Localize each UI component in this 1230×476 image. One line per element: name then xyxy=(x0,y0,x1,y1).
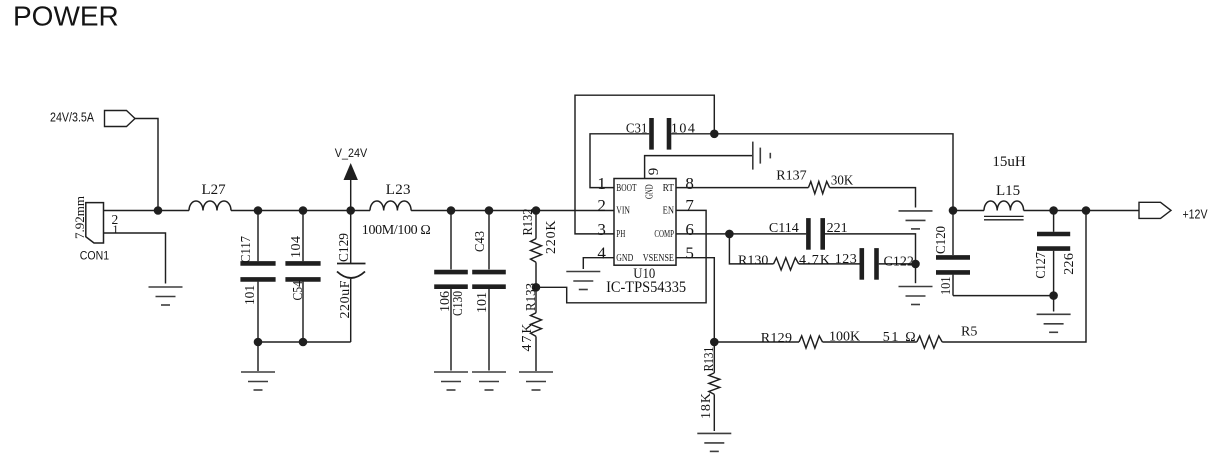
svg-text:R5: R5 xyxy=(961,325,977,340)
svg-text:18K: 18K xyxy=(699,393,714,419)
svg-text:C117: C117 xyxy=(239,236,254,263)
ground pin 9 sideways xyxy=(753,142,771,170)
label 100M/100 ohm xyxy=(362,223,431,238)
svg-text:3: 3 xyxy=(597,220,606,239)
svg-text:104: 104 xyxy=(289,236,304,258)
node COMP xyxy=(725,230,734,239)
svg-text:L27: L27 xyxy=(202,182,227,198)
svg-text:15uH: 15uH xyxy=(992,154,1026,170)
svg-text:4.7K: 4.7K xyxy=(799,253,830,268)
inductor L15 xyxy=(984,154,1026,220)
svg-text:VIN: VIN xyxy=(616,206,630,217)
wire COMP xyxy=(676,233,729,235)
svg-text:24V/3.5A: 24V/3.5A xyxy=(50,111,95,125)
wire BOOT xyxy=(590,134,649,188)
wire bottom rail C117-C129 xyxy=(258,341,351,343)
svg-text:9: 9 xyxy=(646,168,662,176)
ground C130 xyxy=(434,372,468,390)
svg-text:101: 101 xyxy=(939,277,954,296)
wire main rail left xyxy=(158,210,189,212)
capacitor C54 xyxy=(285,211,320,343)
capacitor C43 xyxy=(472,211,506,371)
svg-text:EN: EN xyxy=(663,206,675,217)
svg-text:6: 6 xyxy=(685,220,694,239)
ground R131 xyxy=(697,433,731,451)
wire ground stem xyxy=(257,342,259,371)
resistor R137 xyxy=(676,168,916,207)
node V_24V C129 xyxy=(346,206,355,215)
node C117 bottom xyxy=(254,338,263,347)
U10 pin numbers xyxy=(597,174,694,262)
ground R133 xyxy=(519,372,553,390)
svg-text:4: 4 xyxy=(597,244,606,263)
U10 pin 9 wire xyxy=(645,156,752,179)
svg-text:5: 5 xyxy=(685,244,694,263)
svg-text:226: 226 xyxy=(1062,253,1077,275)
ground R137 xyxy=(899,211,933,229)
inductor L27 xyxy=(189,182,231,211)
node C127 top xyxy=(1049,206,1058,215)
svg-text:220K: 220K xyxy=(544,221,559,255)
capacitor C120 xyxy=(934,211,970,296)
wire EN tap xyxy=(536,210,706,302)
ground pin 4 xyxy=(566,272,600,290)
wire node to L15 xyxy=(953,210,984,212)
U10 pin 4 wire xyxy=(583,258,614,269)
capacitor C130 xyxy=(434,211,468,371)
svg-text:VSENSE: VSENSE xyxy=(643,253,674,264)
node comp gnd xyxy=(911,260,920,269)
svg-text:C130: C130 xyxy=(451,291,466,316)
input port 24V/3.5A xyxy=(50,111,135,127)
svg-text:C129: C129 xyxy=(337,233,352,262)
svg-text:R129: R129 xyxy=(761,331,792,346)
ground C43 xyxy=(472,372,506,390)
wire input to rail xyxy=(135,119,158,211)
title POWER xyxy=(13,1,119,32)
node C54 xyxy=(299,206,308,215)
svg-text:C127: C127 xyxy=(1034,252,1049,279)
ground output xyxy=(1037,314,1071,332)
capacitor C129 electrolytic xyxy=(337,211,366,343)
svg-text:47K: 47K xyxy=(520,324,535,352)
wire rail L23 to VIN xyxy=(411,210,614,212)
svg-text:7: 7 xyxy=(685,196,694,215)
svg-text:R137: R137 xyxy=(776,168,806,183)
svg-text:220uF: 220uF xyxy=(338,280,353,318)
wire switch node to output xyxy=(714,134,953,211)
node R132 xyxy=(532,206,541,215)
node C43 xyxy=(485,206,494,215)
U10 pin names xyxy=(616,183,674,264)
svg-text:CON1: CON1 xyxy=(80,249,110,263)
op-amp U10 IC-TPS54335 body xyxy=(606,179,686,297)
svg-text:101: 101 xyxy=(243,285,258,305)
resistor R132 xyxy=(521,209,559,288)
U10 pin 9 GND label xyxy=(645,168,663,199)
svg-text:C122: C122 xyxy=(884,254,914,269)
wire C127 gnd stem xyxy=(1053,296,1055,312)
svg-text:221: 221 xyxy=(827,221,848,236)
svg-text:2: 2 xyxy=(597,196,606,215)
svg-text:1: 1 xyxy=(113,222,119,236)
capacitor C127 xyxy=(1034,211,1077,296)
ground comp network xyxy=(899,287,933,305)
resistor R131 xyxy=(699,342,720,431)
wire PH loop xyxy=(575,95,714,234)
svg-text:L23: L23 xyxy=(386,182,411,198)
svg-text:30K: 30K xyxy=(831,173,853,188)
resistor R129 xyxy=(714,330,860,349)
power flag V_24V xyxy=(335,148,368,211)
svg-text:R130: R130 xyxy=(738,254,768,269)
wire L15 to output port xyxy=(1024,210,1139,212)
CON1 pin 2 wire xyxy=(104,211,159,227)
capacitor C31 xyxy=(626,118,695,150)
capacitor C117 xyxy=(239,211,276,343)
node C31 xyxy=(710,130,719,139)
wire comp gnd stem xyxy=(915,264,917,283)
svg-text:7.92mm: 7.92mm xyxy=(72,196,87,239)
svg-text:POWER: POWER xyxy=(13,1,119,32)
svg-text:BOOT: BOOT xyxy=(616,183,637,194)
svg-text:R131: R131 xyxy=(702,347,717,372)
svg-text:L15: L15 xyxy=(996,183,1020,199)
svg-text:GND: GND xyxy=(616,253,633,264)
resistor R133 xyxy=(520,283,542,371)
node C54 bottom xyxy=(299,338,308,347)
svg-text:C43: C43 xyxy=(473,231,488,252)
ground input filter xyxy=(241,372,275,390)
svg-text:GND: GND xyxy=(645,184,656,199)
svg-text:51 Ω: 51 Ω xyxy=(883,330,916,345)
svg-text:COMP: COMP xyxy=(654,229,674,240)
svg-text:101: 101 xyxy=(475,292,490,313)
capacitor C122 xyxy=(835,248,916,280)
svg-text:V_24V: V_24V xyxy=(335,148,368,160)
svg-text:C120: C120 xyxy=(934,226,949,254)
resistor R130 xyxy=(729,234,859,270)
node C127 bottom xyxy=(1049,291,1058,300)
CON1 pin 1 wire xyxy=(104,222,166,284)
resistor R5 xyxy=(823,211,1087,349)
ground CON1 xyxy=(149,287,183,305)
svg-text:100M/100 Ω: 100M/100 Ω xyxy=(362,223,431,238)
node C117 xyxy=(254,206,263,215)
label 7.92mm xyxy=(72,196,87,239)
node feedback tap xyxy=(1082,206,1091,215)
connector CON1 xyxy=(80,203,110,263)
capacitor C114 xyxy=(729,218,915,264)
svg-text:RT: RT xyxy=(663,183,675,194)
inductor L23 xyxy=(370,182,411,211)
node C130 xyxy=(447,206,456,215)
svg-text:8: 8 xyxy=(685,174,694,193)
wire output bottom rail xyxy=(953,295,1054,297)
node feedback xyxy=(710,338,719,347)
svg-text:+12V: +12V xyxy=(1183,208,1209,222)
node rail input xyxy=(154,206,163,215)
output port +12V xyxy=(1139,202,1208,221)
node switch output xyxy=(949,206,958,215)
svg-text:C31: C31 xyxy=(626,121,648,136)
wire rail L27 to L23 xyxy=(231,210,370,212)
svg-text:123: 123 xyxy=(835,252,857,267)
svg-text:IC-TPS54335: IC-TPS54335 xyxy=(606,279,686,296)
wire C31 to node xyxy=(671,133,714,135)
svg-text:C54: C54 xyxy=(291,281,306,301)
svg-text:R132: R132 xyxy=(521,209,536,236)
node R132 R133 xyxy=(532,283,541,292)
svg-text:C114: C114 xyxy=(769,221,799,236)
svg-text:PH: PH xyxy=(616,229,625,240)
wire VSENSE xyxy=(676,258,714,342)
svg-text:1: 1 xyxy=(597,174,606,193)
